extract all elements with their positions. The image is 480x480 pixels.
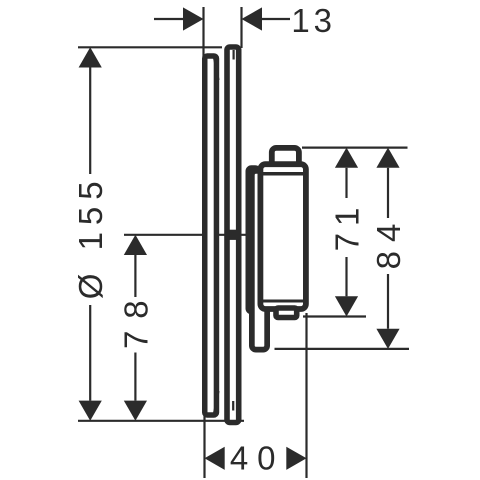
component: handle cap (272, 148, 299, 178)
wire: dim 84 line upper segment (387, 168, 389, 218)
wire: dia155 line lower segment (89, 305, 91, 401)
wire: dim 78 line upper segment (134, 255, 136, 297)
wire: bottom extension line (y=420.8) (78, 420, 244, 422)
svg-text:40: 40 (230, 440, 285, 477)
wire: dim 78 line lower segment (134, 353, 136, 401)
svg-text:78: 78 (117, 288, 154, 349)
wire: slab A taper line top (214, 58, 219, 80)
wire: plate inner tick top (233, 50, 235, 60)
node: dia155 bottom arrow (79, 401, 102, 421)
wire: dim 84 line lower segment (387, 274, 389, 329)
node: dim 84 top arrow (376, 148, 399, 168)
node: dim 13 right arrow (242, 7, 263, 30)
wire: handle joint line bottom (261, 300, 306, 303)
wire: wall-plane extension line (top, x=203.5) (202, 7, 204, 57)
wire: 71 bottom extension line (y=316.5) (303, 315, 366, 317)
component: hook tube behind handle (252, 171, 267, 350)
wire: 40 left extension line (203, 408, 205, 478)
wire: top-right extension line (y=147.6) (302, 147, 408, 149)
node: dim 40 left arrow (205, 447, 225, 470)
svg-text:Ø 155: Ø 155 (72, 174, 109, 299)
component: spindle through plate (225, 230, 240, 240)
svg-text:84: 84 (370, 215, 407, 270)
node: dim 78 bottom arrow (124, 401, 147, 421)
svg-text:71: 71 (329, 201, 366, 252)
wire: slab A taper line bottom (214, 391, 219, 413)
node: dim 13 left arrow (183, 7, 204, 30)
wire: dim 13 left tail (154, 18, 184, 20)
component: bottom tab (276, 308, 297, 318)
wire: handle joint line top (261, 172, 306, 176)
wire: top extension line for dia155 (y=47.3) (78, 46, 222, 48)
wire: centerline extension (y=234.8) (124, 234, 252, 236)
wire: dim 13 right tail (262, 18, 290, 20)
wire: 84 bottom extension line (y=348.9) (275, 348, 410, 350)
component: escutcheon plate slab B (227, 47, 239, 423)
node: dim 78 top arrow (124, 235, 147, 255)
component: in-wall body slab A (205, 56, 217, 415)
wire: right-edge extension line down to 40 (305, 313, 307, 478)
wire: dim 71 line lower segment (345, 257, 347, 296)
node: dim 71 top arrow (335, 148, 358, 168)
wire: dim 71 line upper segment (345, 168, 347, 198)
wire: plate-front extension line (top, x=241.5) (240, 7, 242, 48)
node: dim 40 right arrow (286, 447, 306, 470)
component: handle skirt flange (248, 168, 258, 311)
svg-text:13: 13 (291, 2, 336, 39)
wire: dia155 line upper segment (89, 68, 91, 175)
component: handle main body (260, 164, 306, 309)
node: dim 71 bottom arrow (335, 296, 358, 316)
wire: plate inner tick bottom (232, 401, 234, 411)
node: dia155 top arrow (79, 47, 102, 67)
node: dim 84 bottom arrow (376, 329, 399, 349)
